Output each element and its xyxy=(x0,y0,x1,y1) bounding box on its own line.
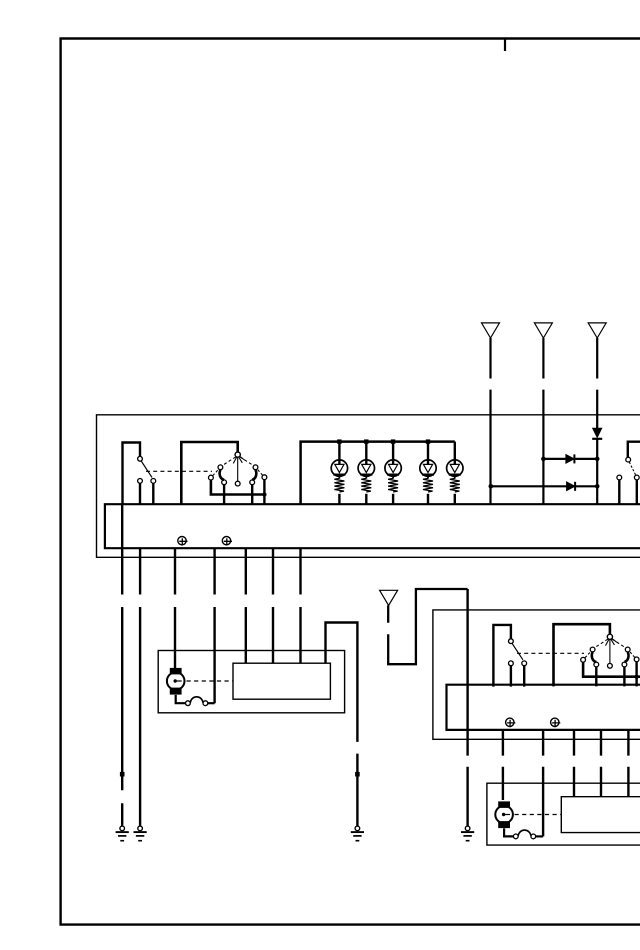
splice dot W1 xyxy=(120,772,125,777)
screw terminal E1 xyxy=(178,537,188,546)
diode D2 xyxy=(566,455,574,464)
junction dot lamp bus 2 xyxy=(364,439,368,443)
wire W9 (pass through J2 to ground) xyxy=(466,589,468,826)
junction dot lamp bus 1 xyxy=(337,439,341,443)
lamp L2 xyxy=(358,442,374,505)
switch SW5 (multi-position) xyxy=(554,624,640,686)
wire W10 to motor M2 xyxy=(502,730,504,800)
control unit box A2 xyxy=(561,797,640,833)
wire W7 to control unit xyxy=(299,548,301,663)
page connector P2 xyxy=(534,323,552,338)
diode D1 (vertical) xyxy=(593,428,602,437)
page connector P3 xyxy=(588,323,606,338)
wire W3 to motor M1 xyxy=(174,548,176,668)
wire P3 lead xyxy=(596,338,598,504)
lamp L4 xyxy=(420,442,436,505)
wire C1 to W4 xyxy=(208,702,215,704)
wire W2 to ground xyxy=(139,548,141,826)
lamp L3 xyxy=(385,442,401,505)
outer box U2 xyxy=(433,610,640,739)
wire W12 to control unit A2 xyxy=(573,730,575,797)
wire W8 jog to ground xyxy=(326,623,358,826)
ground G4 xyxy=(461,826,474,841)
wire P4 lead xyxy=(388,589,467,664)
switch SW2 (multi-position) xyxy=(181,442,267,504)
switch SW3 (right edge) xyxy=(617,442,640,505)
motor unit box M1 xyxy=(158,651,344,713)
connector strip J2 xyxy=(447,685,640,730)
wire W4 to connector C1 xyxy=(213,548,215,703)
linkage dashed SW4-SW5 xyxy=(517,652,584,654)
splice dot W8 xyxy=(355,772,360,777)
screw terminal E4 xyxy=(551,718,561,727)
linkage dashed SW1-SW2 xyxy=(146,470,212,472)
switch SW1 (SPDT) xyxy=(123,443,156,505)
page connector P1 xyxy=(482,323,500,338)
wire W13 to control unit A2 xyxy=(600,730,602,797)
junction dot lamp bus 4 xyxy=(426,439,430,443)
junction dot P1-D3 xyxy=(489,484,494,489)
junction dot D3-P3 xyxy=(595,484,600,489)
motor M1 xyxy=(167,668,185,695)
wire motor M2 bottom xyxy=(504,828,513,836)
inline connector C2 xyxy=(513,830,535,839)
screw terminal E3 xyxy=(506,718,516,727)
top border tick mark xyxy=(504,39,506,52)
switch SW4 (SPDT) xyxy=(493,625,526,687)
lamp L1 xyxy=(331,442,347,505)
dashed motor link 2 xyxy=(515,814,561,816)
dashed motor link xyxy=(187,680,233,682)
wire diode row upper xyxy=(543,458,597,460)
wire W14 to control unit A2 xyxy=(627,730,629,797)
motor M2 xyxy=(495,801,513,828)
wire P2 lead xyxy=(542,338,544,504)
junction dot D2-P3 xyxy=(595,457,600,462)
ground G2 xyxy=(134,826,147,841)
outer box U1 (audio/antenna unit) xyxy=(97,415,640,558)
wire W11 to connector C2 xyxy=(542,730,544,837)
lamp bus wire xyxy=(301,442,455,505)
screw terminal E2 xyxy=(222,537,232,546)
motor unit box M2 xyxy=(487,783,640,845)
diode D3 xyxy=(567,482,575,491)
junction dot lamp bus 3 xyxy=(391,439,395,443)
wire W1 (pass through J1 to ground) xyxy=(121,504,123,826)
wire diode row lower xyxy=(491,485,597,487)
wire P1 lead xyxy=(489,338,491,504)
wire C2 to W11 xyxy=(536,835,543,837)
ground G1 xyxy=(116,826,129,841)
lamp L5 xyxy=(447,442,463,505)
wire motor M1 bottom xyxy=(176,695,186,703)
wire W6 to control unit xyxy=(272,548,274,663)
control unit box A1 xyxy=(233,663,330,699)
ground G3 xyxy=(351,826,364,841)
page connector P4 xyxy=(380,590,398,605)
inline connector C1 xyxy=(186,697,208,706)
wire W5 to control unit xyxy=(245,548,247,663)
connector strip J1 xyxy=(105,504,640,548)
wire SW5 bus extension xyxy=(637,675,640,678)
junction dot P2-D2 xyxy=(541,457,546,462)
